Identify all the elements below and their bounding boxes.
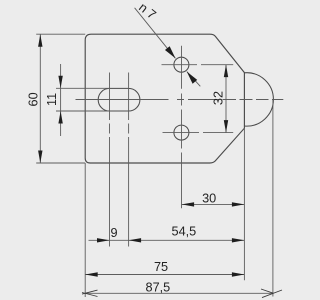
arrow 60 top — [38, 34, 42, 47]
open arrow 87.5 right — [261, 289, 282, 298]
centerline slot right arc center — [128, 73, 130, 247]
open arrow 87.5 left — [82, 290, 98, 296]
svg-text:32: 32 — [211, 91, 225, 105]
svg-text:30: 30 — [202, 192, 216, 206]
extension line slot bottom (for 11) — [56, 110, 110, 112]
plate outline — [85, 34, 244, 163]
extension line plate bottom (for 60) — [36, 162, 85, 164]
arrow leader n7 upper — [165, 46, 175, 58]
extension line plate top (for 60) — [36, 33, 85, 35]
arrow 30 left — [182, 202, 195, 206]
svg-text:87,5: 87,5 — [146, 280, 171, 294]
centerline horizontal mid plate — [76, 99, 284, 101]
arrow 54.5 left (pointing left) — [129, 238, 142, 242]
dimension line 30 — [182, 203, 245, 205]
extension line slot top (for 11) — [56, 87, 110, 89]
arrow 60 bottom — [38, 151, 42, 164]
arrow 32 top — [224, 65, 228, 78]
arrow 9 left (outside, pointing right) — [97, 238, 110, 242]
arrow 75 right — [232, 272, 245, 276]
arrow 54.5 right — [232, 238, 245, 242]
arrow leader n7 lower — [187, 72, 197, 84]
svg-text:75: 75 — [154, 260, 168, 274]
arrow 30 right — [232, 202, 245, 206]
centerline horizontal bottom hole — [163, 132, 234, 134]
centerline horizontal top hole — [162, 64, 234, 66]
right bump arc — [244, 73, 273, 126]
arrow 11 bottom (outside, pointing up) — [58, 111, 62, 124]
extension line plate right edge down — [243, 129, 245, 281]
dimension line 11 — [60, 64, 62, 136]
centerline vertical hole column — [181, 46, 183, 209]
extension line plate left edge down — [84, 163, 86, 297]
svg-text:11: 11 — [45, 93, 59, 106]
arrow 32 bottom — [224, 120, 228, 133]
centerline slot left arc center — [109, 73, 111, 247]
dimension line 32 — [225, 65, 227, 133]
leader line n7 lower — [187, 72, 201, 87]
dimension line 87.5 — [85, 292, 273, 294]
hole H1 (top, n7) — [174, 57, 189, 72]
arrow 11 top (outside, pointing down) — [58, 76, 62, 89]
hole H2 (bottom, n7) — [174, 125, 189, 140]
dimension line 60 — [39, 34, 41, 163]
svg-text:60: 60 — [26, 92, 40, 106]
leader line n7 upper — [135, 8, 176, 59]
svg-text:9: 9 — [110, 226, 117, 240]
dimension line 75 — [85, 274, 244, 276]
slot (oblong hole) — [98, 88, 140, 111]
arrow 75 left — [85, 272, 98, 276]
extension line bump right down — [272, 99, 274, 296]
dimension line 9 and 54.5 — [89, 239, 245, 241]
svg-text:54,5: 54,5 — [172, 225, 197, 239]
